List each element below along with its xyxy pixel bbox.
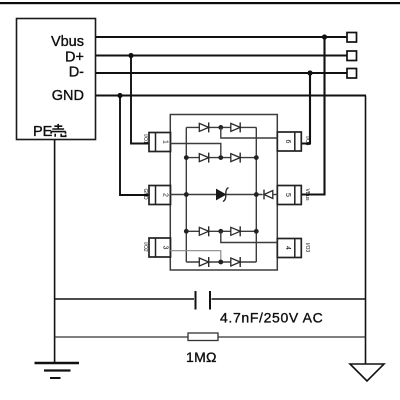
wire GND drop to pin 2 [120, 96, 149, 196]
pin 2 label GND [142, 188, 148, 200]
junction Vbus [322, 34, 327, 39]
node GND row left rail [184, 192, 189, 197]
wire resistor row right [218, 336, 366, 338]
node row B left rail [184, 155, 189, 160]
capacitor C1 [196, 291, 211, 310]
svg-text:D-: D- [69, 65, 84, 81]
wire capacitor row right [212, 298, 366, 300]
pin 6 box [277, 132, 301, 151]
svg-text:4: 4 [284, 246, 291, 250]
node mid row A [218, 125, 223, 130]
diode D4b [231, 257, 240, 267]
svg-text:GND: GND [52, 88, 84, 104]
wire D- horizontal [96, 72, 347, 74]
resistor R1 [188, 333, 218, 341]
wire Vbus drop to pin 5 [301, 37, 325, 195]
pin 4 box [277, 239, 301, 258]
node row B right rail [254, 155, 259, 160]
label D- [69, 65, 84, 81]
label 1M ohm [186, 349, 217, 365]
svg-text:4.7nF/250V AC: 4.7nF/250V AC [220, 310, 323, 326]
node row C right rail [254, 229, 259, 234]
wire mid A to pin 6 [221, 127, 277, 138]
wire Vbus horizontal [96, 36, 347, 38]
diode D5 to pin 5 [264, 190, 277, 200]
diode D1a [199, 122, 208, 132]
pin 5 label VBus [304, 189, 310, 201]
label PE (shell) [33, 124, 66, 140]
wire pin 1 to mid row B [170, 144, 221, 158]
zener Z1 [217, 188, 229, 202]
connector pad square 1 [347, 33, 357, 43]
wire GND row [170, 194, 262, 196]
top border line [0, 2, 400, 4]
wire pin 3 to mid row E [170, 251, 221, 262]
pin 4 label I/O3 [304, 243, 310, 253]
svg-text:D+: D+ [65, 50, 84, 66]
diode D2a [199, 153, 208, 163]
IC U1 body [170, 115, 277, 271]
label Vbus [51, 34, 84, 50]
wire D+ horizontal [96, 55, 347, 57]
junction GND [117, 93, 122, 98]
pin 1 box [149, 133, 171, 152]
internal right rail [255, 127, 257, 262]
connector pad square 3 [347, 69, 357, 79]
wire resistor row left [55, 336, 188, 338]
pin 1 label I/O1 [142, 134, 148, 144]
junction D+ [128, 53, 133, 58]
pin 3 label I/O2 [142, 242, 148, 252]
wire D- drop to pin 6 [301, 73, 310, 144]
diode D1b [231, 122, 240, 132]
svg-text:I/O3: I/O3 [304, 243, 310, 253]
svg-text:5: 5 [284, 193, 291, 197]
node GND row right rail [254, 192, 259, 197]
label D+ [65, 50, 84, 66]
connector pad square 2 [347, 51, 357, 61]
wire GND right side down [365, 96, 367, 365]
svg-text:Vbus: Vbus [51, 34, 84, 50]
wire row C [186, 230, 256, 232]
diode D2b [231, 153, 240, 163]
pin 2 box [149, 186, 171, 205]
diode D3a [199, 226, 208, 236]
diode D4a [199, 257, 208, 267]
wire mid C to pin 4 [221, 231, 277, 242]
junction D- [307, 70, 312, 75]
svg-text:GND: GND [142, 188, 148, 200]
svg-text:I/O2: I/O2 [142, 242, 148, 252]
wire capacitor row left [55, 298, 194, 300]
wire row A [186, 126, 256, 128]
wire row E [186, 261, 256, 263]
pin 5 box [277, 186, 301, 205]
label GND [52, 88, 84, 104]
diode D3b [231, 226, 240, 236]
node mid row C [218, 229, 223, 234]
svg-text:I/O4: I/O4 [304, 136, 310, 146]
pin 6 label I/O4 [304, 136, 310, 146]
svg-text:1MΩ: 1MΩ [186, 349, 217, 365]
wire D+ drop to pin 1 [131, 56, 149, 144]
svg-text:3: 3 [162, 246, 169, 250]
node mid row E [218, 260, 223, 265]
svg-text:VBus: VBus [304, 189, 310, 201]
connector box J1 [17, 19, 96, 140]
wire GND horizontal [96, 95, 366, 97]
svg-text:I/O1: I/O1 [142, 134, 148, 144]
pin 3 box [149, 238, 171, 257]
wire row B [186, 157, 256, 159]
chassis ground triangle [350, 364, 384, 381]
internal left rail [185, 127, 187, 262]
svg-text:2: 2 [162, 193, 169, 197]
earth ground PE [35, 363, 80, 378]
svg-text:PE: PE [33, 124, 53, 140]
svg-text:6: 6 [284, 140, 291, 144]
node mid row B [218, 155, 223, 160]
label 4.7nF/250V AC [220, 310, 323, 326]
wire PE shell down [54, 140, 56, 363]
node row C left rail [184, 229, 189, 234]
svg-text:1: 1 [162, 140, 169, 144]
